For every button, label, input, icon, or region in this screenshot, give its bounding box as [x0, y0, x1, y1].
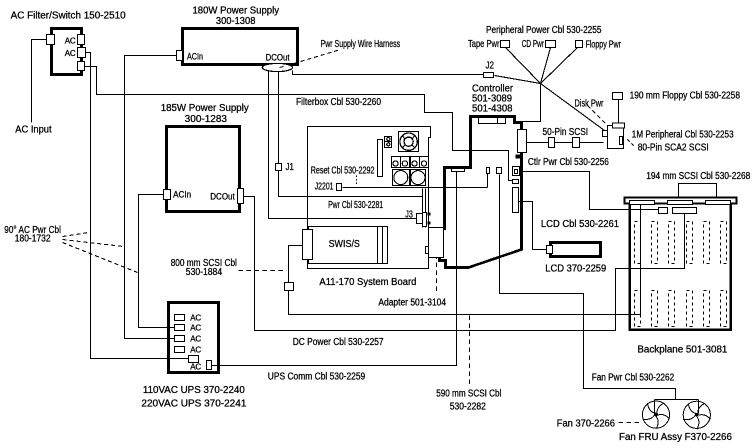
svg-text:Ctlr Pwr Cbl 530-2256: Ctlr Pwr Cbl 530-2256 [528, 157, 609, 168]
svg-text:AC: AC [65, 36, 76, 45]
svg-text:501-4308: 501-4308 [472, 104, 513, 115]
svg-text:110VAC UPS 370-2240: 110VAC UPS 370-2240 [143, 385, 245, 396]
svg-text:Peripheral Power Cbl 530-2255: Peripheral Power Cbl 530-2255 [486, 25, 602, 36]
svg-text:AC: AC [190, 335, 201, 344]
svg-text:300-1283: 300-1283 [185, 114, 228, 125]
svg-text:AC: AC [190, 363, 201, 372]
svg-text:180W Power Supply: 180W Power Supply [193, 6, 280, 17]
svg-text:530-1884: 530-1884 [186, 267, 223, 278]
svg-text:UPS Comm Cbl 530-2259: UPS Comm Cbl 530-2259 [268, 372, 366, 383]
svg-text:80-Pin SCA2 SCSI: 80-Pin SCA2 SCSI [638, 142, 709, 153]
svg-text:AC Filter/Switch 150-2510: AC Filter/Switch 150-2510 [11, 11, 126, 22]
svg-text:50-Pin SCSI: 50-Pin SCSI [543, 127, 589, 138]
svg-text:DCOut: DCOut [210, 192, 235, 202]
svg-text:Pwr Supply Wire Harness: Pwr Supply Wire Harness [321, 39, 401, 50]
svg-text:DCOut: DCOut [266, 53, 290, 63]
svg-text:DC Power Cbl 530-2257: DC Power Cbl 530-2257 [293, 337, 384, 348]
svg-text:CD Pwr: CD Pwr [522, 39, 545, 50]
svg-text:AC: AC [190, 324, 201, 333]
svg-text:Fan FRU Assy F370-2266: Fan FRU Assy F370-2266 [619, 432, 732, 443]
svg-text:530-2282: 530-2282 [450, 402, 487, 413]
svg-text:Fan 370-2266: Fan 370-2266 [557, 419, 615, 430]
svg-text:Disk Pwr: Disk Pwr [575, 99, 604, 110]
svg-text:SWIS/S: SWIS/S [329, 239, 361, 250]
svg-text:190 mm Floppy Cbl 530-2258: 190 mm Floppy Cbl 530-2258 [630, 91, 741, 102]
svg-text:AC: AC [190, 346, 201, 355]
svg-text:Backplane 501-3081: Backplane 501-3081 [637, 345, 727, 356]
svg-text:J1: J1 [286, 162, 295, 173]
svg-text:Reset Cbl 530-2292: Reset Cbl 530-2292 [311, 166, 375, 177]
svg-text:220VAC UPS 370-2241: 220VAC UPS 370-2241 [141, 399, 246, 410]
svg-text:LCD Cbl 530-2261: LCD Cbl 530-2261 [541, 219, 620, 230]
svg-text:Adapter 501-3104: Adapter 501-3104 [378, 298, 446, 309]
svg-text:AC: AC [65, 49, 76, 58]
svg-text:300-1308: 300-1308 [216, 16, 256, 27]
svg-text:Pwr Cbl 530-2281: Pwr Cbl 530-2281 [328, 200, 383, 211]
svg-text:AC: AC [190, 314, 201, 323]
svg-text:Fan Pwr Cbl 530-2262: Fan Pwr Cbl 530-2262 [592, 373, 675, 384]
svg-text:J2201: J2201 [315, 182, 334, 193]
svg-text:180-1732: 180-1732 [15, 233, 51, 244]
svg-text:A11-170 System Board: A11-170 System Board [319, 277, 416, 288]
svg-text:185W Power Supply: 185W Power Supply [161, 103, 249, 114]
svg-text:Tape Pwr: Tape Pwr [468, 39, 500, 50]
svg-text:194 mm SCSI Cbl 530-2268: 194 mm SCSI Cbl 530-2268 [646, 171, 750, 182]
svg-text:J2: J2 [486, 61, 495, 72]
svg-text:Filterbox Cbl 530-2260: Filterbox Cbl 530-2260 [296, 97, 381, 108]
svg-text:ACIn: ACIn [173, 190, 191, 200]
svg-text:AC Input: AC Input [15, 125, 51, 136]
svg-text:LCD 370-2259: LCD 370-2259 [545, 264, 606, 275]
svg-text:Floppy Pwr: Floppy Pwr [586, 40, 622, 51]
svg-text:1M Peripheral Cbl 530-2253: 1M Peripheral Cbl 530-2253 [632, 130, 734, 141]
svg-text:J3: J3 [405, 210, 413, 221]
svg-text:ACIn: ACIn [187, 52, 203, 62]
svg-text:590 mm SCSI Cbl: 590 mm SCSI Cbl [436, 389, 501, 400]
